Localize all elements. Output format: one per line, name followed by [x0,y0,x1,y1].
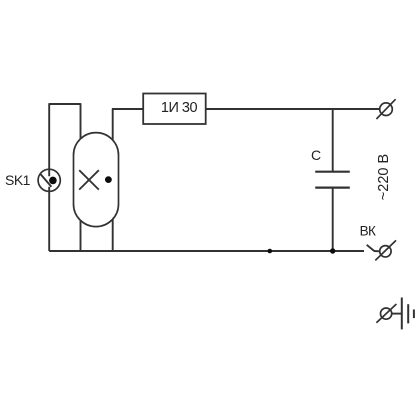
wire capacitor bottom [332,188,334,251]
switch BK blade to terminal stub [374,250,380,252]
terminal X1 slash [376,99,395,119]
lamp EL1 gas-fill dot [105,176,112,183]
wire lamp to ballast box [112,108,143,110]
socket XS1 bar long [401,298,403,330]
wire bottom horizontal [49,250,364,252]
terminal X2 (BK) circle [380,246,391,257]
starter SK1 circle [38,169,60,191]
socket XS1 connector line [392,313,402,315]
socket XS1 bar short [413,310,415,319]
starter SK1 electrode chord [40,174,51,187]
socket XS1 slash [376,304,396,323]
terminal X2 slash [375,240,396,260]
svg-text:~220 В: ~220 В [376,154,392,200]
wire left vertical upper (starter branch) [48,103,50,176]
switch BK blade [367,245,375,251]
svg-text:SK1: SK1 [5,172,31,188]
svg-text:1И 30: 1И 30 [161,100,198,116]
socket XS1 circle [381,308,392,319]
starter SK1 dot [49,177,57,185]
svg-text:ВК: ВК [360,223,376,238]
capacitor C plate 1 [315,171,350,173]
wire capacitor top [332,109,334,172]
junction dot on bottom wire (lamp return) [268,249,273,254]
wire lamp right lead bottom [112,217,114,252]
wire top-left horizontal (starter branch top) [49,103,80,105]
lamp EL1 electrode cross [79,170,99,189]
capacitor C plate 2 [315,187,350,189]
lamp EL1 (fluorescent lamp envelope) [74,133,119,227]
wire lamp left lead bottom [80,217,82,251]
junction dot capacitor / bottom wire [330,248,335,253]
socket XS1 bar medium [407,304,409,323]
wire lamp right lead top [112,109,114,142]
wire lamp left lead top [80,103,82,142]
svg-text:C: C [311,147,321,163]
terminal X1 top right: circle [380,103,393,116]
wire ballast box to terminal X1 [206,108,380,110]
wire left vertical lower (starter branch) [48,187,50,251]
ballast box 1И 30 [143,94,206,125]
